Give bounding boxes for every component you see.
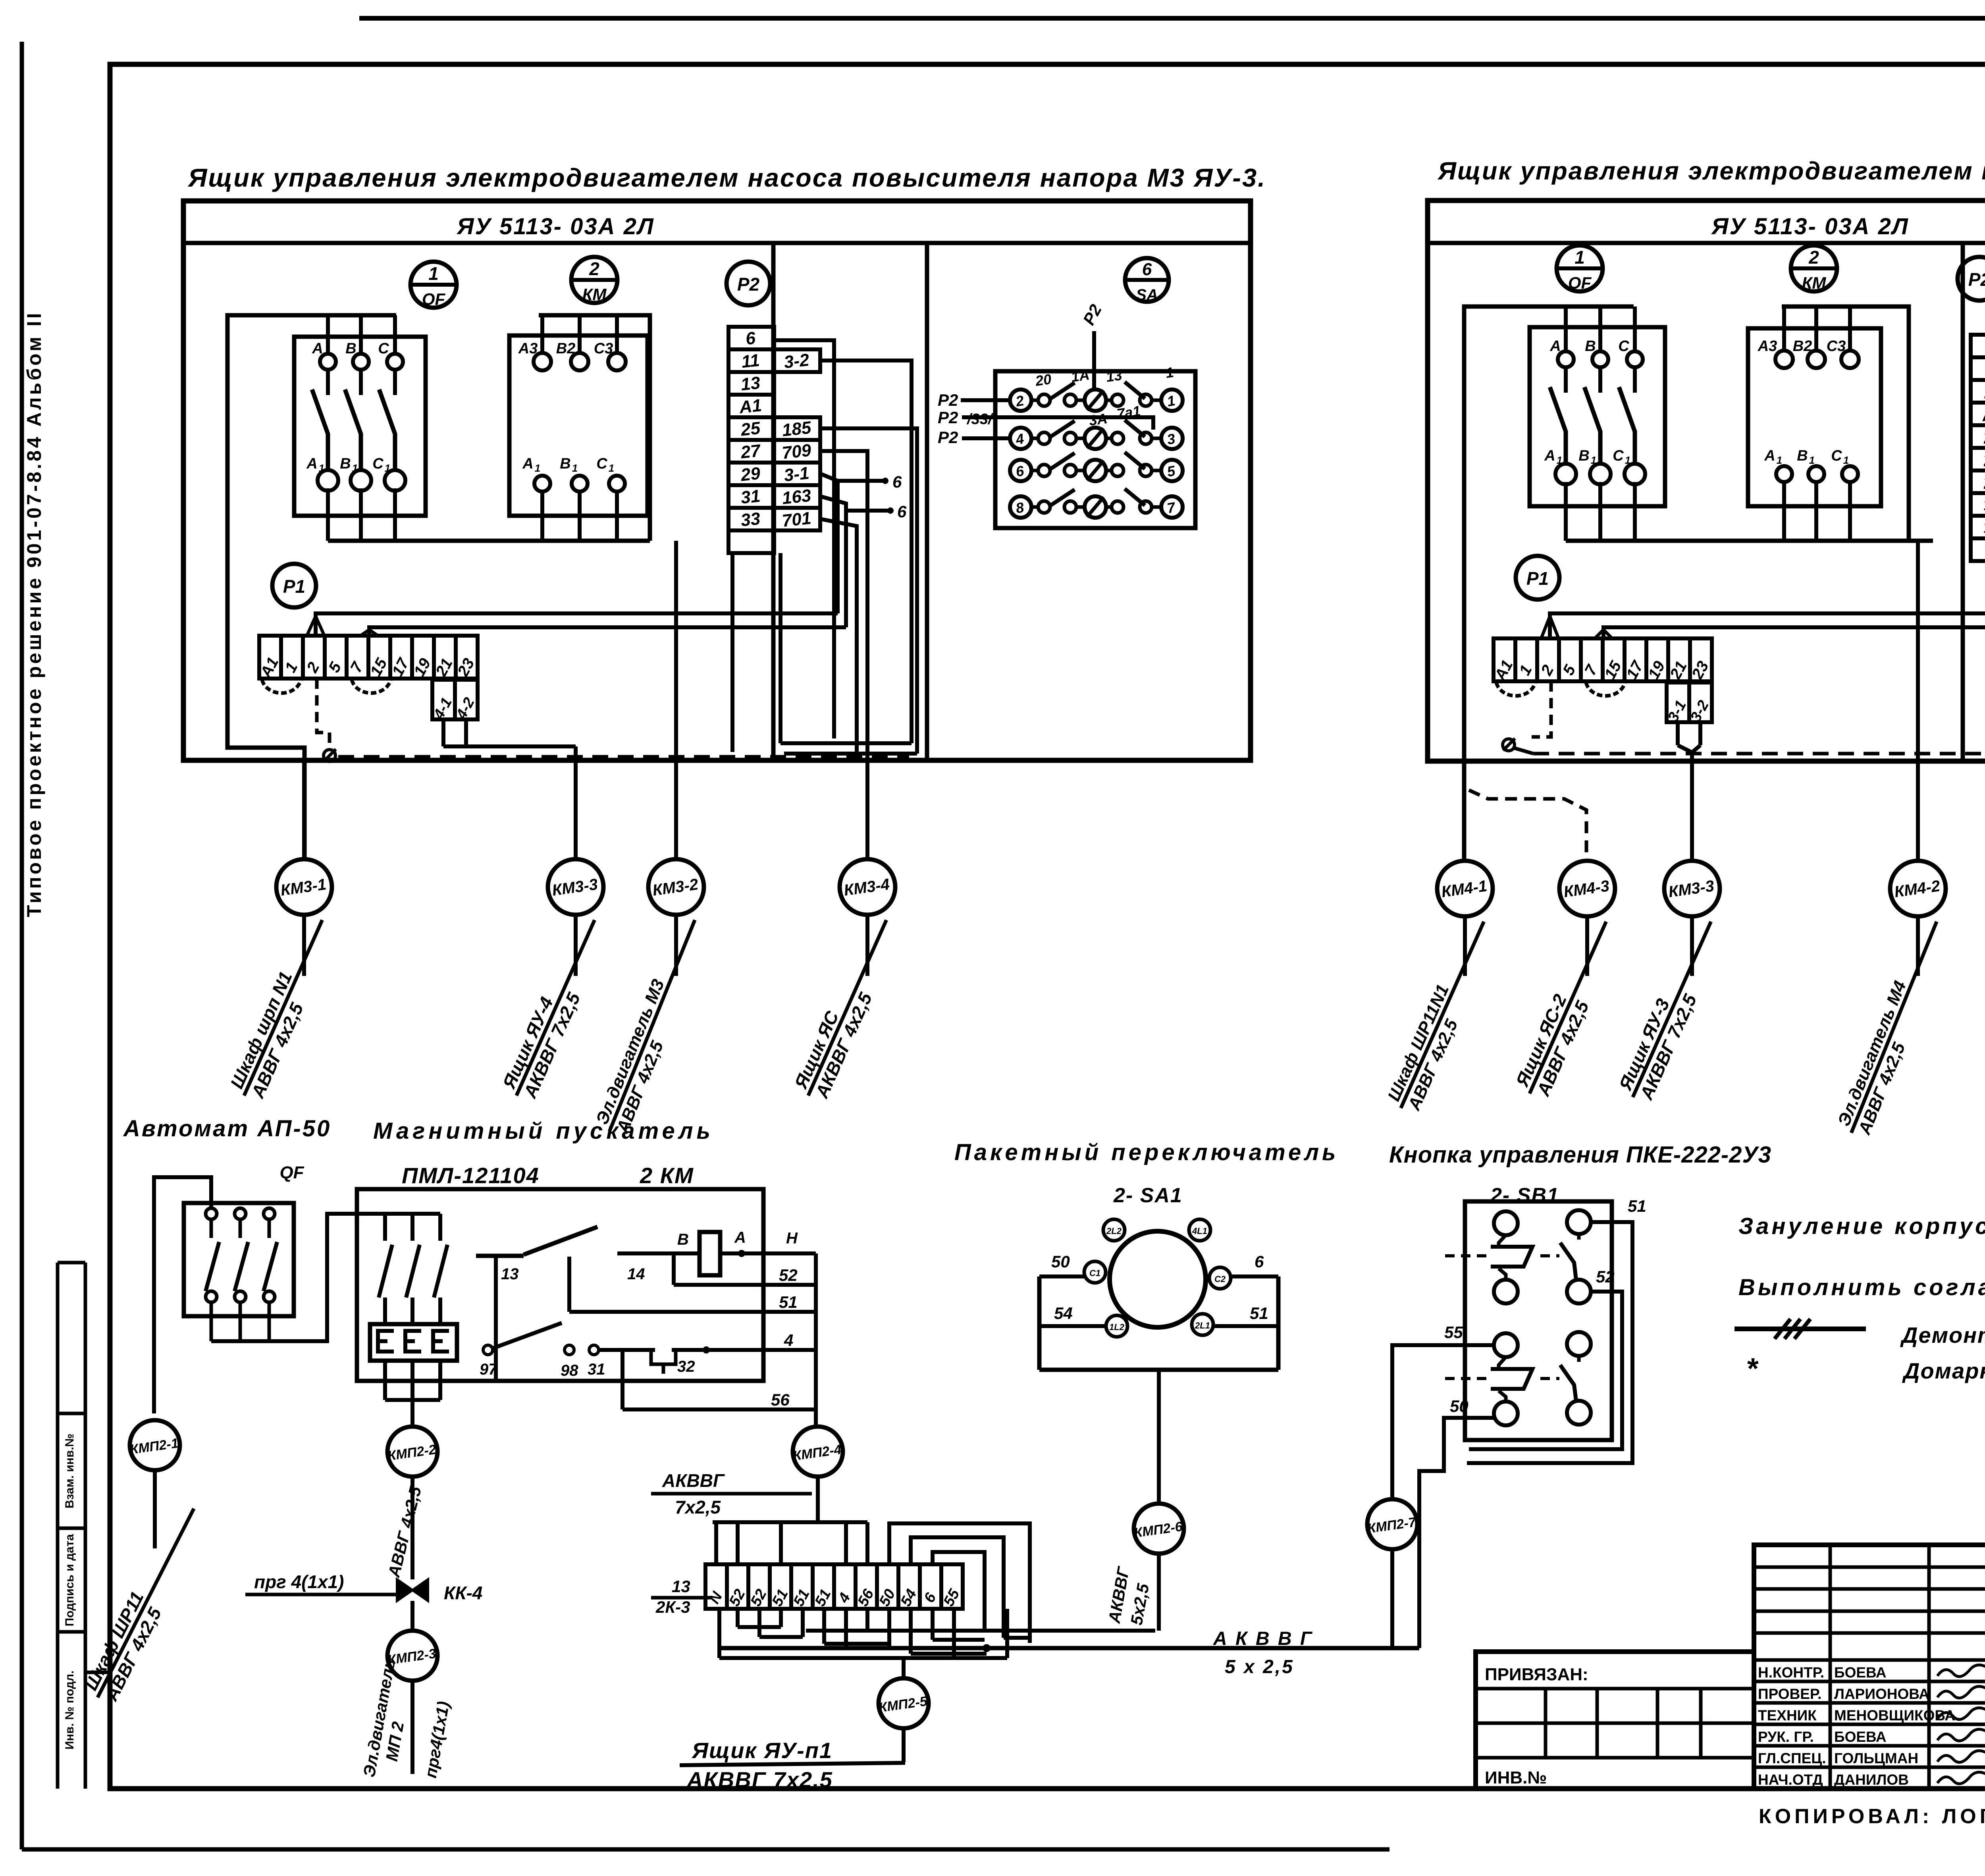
svg-text:1: 1 [1557, 454, 1562, 466]
wire loop to cell 54 [911, 1537, 1004, 1638]
wire P2 feed to SA top box1 [1092, 331, 1096, 390]
wire KM feeds box1 [539, 315, 650, 541]
wire KMP2-2 to KK-4 [410, 1477, 414, 1579]
cable label AKVVG 7x2.5 [651, 1470, 812, 1517]
svg-text:51: 51 [1250, 1304, 1268, 1323]
svg-text:С: С [372, 455, 384, 472]
wire funnel cell7 box2 [1595, 630, 1603, 638]
svg-text:54: 54 [1054, 1304, 1073, 1323]
svg-text:БОЕВА: БОЕВА [1834, 1729, 1887, 1745]
svg-text:1: 1 [609, 462, 614, 474]
svg-text:6: 6 [1255, 1252, 1264, 1271]
svg-text:А1: А1 [738, 395, 763, 417]
svg-text:2: 2 [589, 258, 599, 279]
cable label Шкаф ШР11N1 / АВВГ 4х2,5 [1382, 913, 1503, 1116]
wire 52 from SB1 [1469, 1292, 1622, 1449]
svg-text:РУК. ГР.: РУК. ГР. [1758, 1729, 1814, 1745]
wire stub below KM3-2 [674, 915, 678, 976]
wire bus to KMP2-6 [806, 1629, 1155, 1633]
wire from value 3-2 box1 [820, 361, 912, 743]
svg-text:1: 1 [1777, 454, 1782, 466]
svg-text:С: С [1618, 338, 1629, 355]
svg-text:1: 1 [572, 462, 578, 474]
svg-text:А3: А3 [1758, 338, 1777, 355]
svg-text:1: 1 [428, 263, 439, 284]
cable marker КМ4-2 [1890, 861, 1946, 916]
svg-text:Инв. № подл.: Инв. № подл. [63, 1670, 76, 1749]
svg-text:Н: Н [786, 1230, 798, 1247]
wire pair to P1 strip box1 upper [316, 613, 838, 636]
wire pair to P1 strip box2 lower [1603, 627, 1985, 638]
wire below KMP2-7 [1390, 1549, 1394, 1648]
svg-text:ГЛ.СПЕЦ.: ГЛ.СПЕЦ. [1758, 1750, 1826, 1766]
svg-text:С3: С3 [1827, 338, 1846, 355]
svg-text:709: 709 [781, 440, 812, 463]
svg-text:2: 2 [1808, 247, 1819, 268]
cable label Ящик ЯС-2 / АВВГ 4х2,5 [1510, 913, 1627, 1103]
svg-text:31: 31 [740, 486, 761, 508]
svg-text:33: 33 [740, 509, 761, 530]
cable label Шкаф ШР11 / АВВГ 4х2,5 [79, 1499, 214, 1708]
svg-text:С2: С2 [1214, 1274, 1226, 1284]
wire stub above KM3-1 [302, 760, 306, 859]
svg-text:В: В [1585, 338, 1596, 355]
svg-text:25: 25 [740, 418, 761, 440]
wire bottom bus box1 [328, 539, 650, 543]
svg-text:НАЧ.ОТД: НАЧ.ОТД [1758, 1772, 1823, 1788]
terminal cells 4-1 4-2 box1 [430, 680, 478, 722]
device circle 6/SA box1 [1125, 258, 1169, 304]
breaker AP-50 [184, 1203, 294, 1341]
svg-text:ДАНИЛОВ: ДАНИЛОВ [1834, 1772, 1909, 1788]
svg-text:55: 55 [1444, 1323, 1463, 1342]
wire P2 lead row3 box1 [962, 436, 1010, 440]
wire KK-4 to KMP2-3 [410, 1601, 414, 1631]
wire KM feeds box2 [1782, 307, 1909, 541]
svg-text:Р2: Р2 [1968, 269, 1985, 290]
divider P2 panel box2 [1961, 243, 1965, 761]
wire stub below KM3-3 [574, 915, 578, 976]
label Yashchik YaU-P1 [680, 1738, 905, 1792]
cable label Эл.двигатель М4 / АВВГ 4х2,5 [1833, 914, 1956, 1141]
device circle 2/KM box1 [571, 257, 617, 304]
svg-text:прг 4(1х1): прг 4(1х1) [254, 1571, 344, 1592]
wire from value 185 box1 [820, 428, 917, 754]
svg-text:Р2: Р2 [938, 408, 958, 427]
wire stub 6 lower box1 [846, 502, 907, 521]
svg-text:КК-4: КК-4 [444, 1583, 482, 1603]
svg-text:52: 52 [1596, 1267, 1615, 1286]
svg-text:Магнитный пускатель: Магнитный пускатель [373, 1118, 714, 1144]
wire AP-50 output bus [211, 1214, 440, 1341]
svg-text:Демонтировать: Демонтировать [1900, 1323, 1985, 1348]
svg-text:А: А [734, 1229, 746, 1246]
wire dashed from cell2 box1 [317, 679, 330, 750]
ground symbol box1 [324, 749, 336, 762]
sheet left edge [20, 42, 24, 1849]
wire strip to KMP2-5 [902, 1658, 906, 1678]
wire ladder bus to KMP2-4 [814, 1253, 818, 1427]
svg-text:Типовое проектное решение 90: Типовое проектное решение 901-07-8.84 Ал… [23, 310, 45, 917]
svg-text:Ящик ЯУ-п1: Ящик ЯУ-п1 [691, 1738, 833, 1763]
wire bottom bus box2 [1566, 539, 1933, 543]
svg-text:13: 13 [1105, 367, 1123, 385]
wire from value 701 box1 [820, 519, 857, 754]
wire N line [720, 1230, 816, 1257]
svg-text:5 х 2,5: 5 х 2,5 [1225, 1656, 1294, 1677]
wire P2 lead row2 box1 [962, 417, 1153, 430]
wire SA1 to KMP2-6 [1157, 1370, 1161, 1504]
svg-text:В2: В2 [556, 340, 576, 357]
device circle 1/QF box2 [1557, 245, 1603, 293]
svg-text:32: 32 [677, 1358, 695, 1375]
cable label Ящик ЯУ-4 / АКВВГ 7х2,5 [497, 911, 615, 1105]
svg-text:А: А [1549, 338, 1561, 355]
cable marker KMP2-1 [129, 1420, 180, 1470]
wire understrip weave [719, 1609, 1030, 1658]
contactor KM box2 [1748, 328, 1881, 541]
svg-text:1: 1 [1575, 247, 1585, 268]
svg-text:Выполнить согласно ПУЭ: Выполнить согласно ПУЭ [1738, 1274, 1985, 1300]
wire cable drop KM3-2 [674, 541, 678, 859]
svg-text:С: С [596, 455, 607, 472]
wire stub below KM3-3 right [1690, 916, 1694, 976]
svg-text:Взам. инв.№: Взам. инв.№ [63, 1434, 76, 1509]
svg-text:А: А [306, 455, 317, 472]
svg-text:Ящик управления электродвигате: Ящик управления электродвигателем насоса… [1437, 157, 1985, 185]
svg-text:ЯУ 5113- 03А 2Л: ЯУ 5113- 03А 2Л [1711, 214, 1909, 239]
svg-text:Ящик управления электродвигате: Ящик управления электродвигателем насоса… [187, 163, 1266, 192]
cable label AKVVG 5x2.5 vertical [1104, 1565, 1152, 1627]
svg-text:2К-3: 2К-3 [655, 1598, 690, 1616]
wire from value 709 box1 to KM3-4 [820, 451, 867, 859]
svg-text:1: 1 [1625, 454, 1630, 466]
wire cable drop KM3-3 right [1690, 752, 1694, 859]
svg-text:1: 1 [1843, 454, 1849, 466]
wire dashed from cell2 box2 [1532, 681, 1551, 737]
wire below KMP2-1 [153, 1470, 157, 1548]
svg-text:ЯУ 5113- 03А 2Л: ЯУ 5113- 03А 2Л [456, 214, 654, 239]
thermal fuse KK-4 [397, 1579, 428, 1601]
wire cable drop KM4-2 [1916, 541, 1920, 859]
wire pair to P1 strip box2 upper [1550, 613, 1985, 638]
wire long bus to KMP2-7 [719, 1646, 1419, 1650]
wire sheet top edge [359, 16, 1985, 21]
svg-text:ГОЛЬЦМАН: ГОЛЬЦМАН [1834, 1750, 1918, 1766]
svg-text:КОПИРОВАЛ: ЛОГИНОВА: КОПИРОВАЛ: ЛОГИНОВА [1759, 1805, 1985, 1828]
svg-text:В: В [340, 455, 351, 472]
stamp signature table [1754, 1545, 1985, 1789]
svg-text:ПМЛ-121104: ПМЛ-121104 [402, 1163, 540, 1188]
svg-text:КМ: КМ [1802, 274, 1827, 292]
svg-text:ИНВ.№: ИНВ.№ [1485, 1768, 1547, 1787]
svg-text:А К В В Г: А К В В Г [1213, 1628, 1313, 1649]
ground symbol box2 [1503, 738, 1515, 751]
contactor 2KM poles [379, 1214, 447, 1324]
wire loop to cell 6 [933, 1552, 985, 1633]
current transformer arc right box2 [1586, 683, 1625, 696]
svg-text:В: В [560, 455, 570, 472]
cable label AKVVG 5x2.5 horizontal [1213, 1628, 1313, 1677]
wire ground tail box2 [1514, 748, 1533, 754]
svg-text:Н.КОНТР.: Н.КОНТР. [1758, 1664, 1824, 1681]
wire KMP2-4 to strip bus [816, 1477, 820, 1522]
cable label Шкаф шрп N1 / АВВГ 4х2,5 [225, 911, 343, 1105]
device circle P2 box2 [1958, 257, 1985, 301]
cable marker КМ3-4 [840, 859, 895, 915]
svg-text:1: 1 [352, 462, 358, 474]
svg-text:Р1: Р1 [1526, 568, 1549, 589]
terminal block P1 box2 [1491, 638, 1712, 684]
wire P2 lead row1 box1 [961, 398, 1010, 402]
svg-text:В: В [1797, 447, 1808, 464]
wire dashed cable KM4-3 [1469, 790, 1586, 859]
aux contact 13-14 [476, 1227, 700, 1381]
wire pair to P1 strip box1 lower [369, 627, 846, 636]
legend demontage symbol [1734, 1319, 1866, 1339]
wire cable drop KM3-3 [574, 746, 578, 859]
svg-text:51: 51 [1628, 1197, 1646, 1215]
svg-text:Автомат АП-50: Автомат АП-50 [123, 1116, 331, 1141]
svg-text:С: С [1831, 447, 1842, 464]
current transformer arc right box1 [352, 680, 391, 693]
device circle P2 box1 [727, 262, 770, 305]
svg-text:QF: QF [1568, 274, 1592, 293]
device circle 1/QF box1 [410, 262, 457, 309]
wire inner panel left box2 / cable drop KM4-1 [1464, 307, 1634, 859]
terminal values P2 box1 [774, 349, 820, 531]
svg-text:1: 1 [385, 462, 390, 474]
svg-text:ТЕХНИК: ТЕХНИК [1758, 1707, 1817, 1724]
svg-text:4L1: 4L1 [1192, 1226, 1207, 1236]
device circle P1 box1 [272, 564, 316, 607]
wire stub 6 upper box1 [838, 472, 902, 491]
wire 4 line with contacts [480, 1323, 816, 1379]
svg-text:QF: QF [279, 1163, 304, 1182]
wire QF phase feeds box2 [1564, 307, 1568, 351]
label 13 / 2K-3 [651, 1577, 711, 1616]
current transformer arc left box1 [262, 680, 301, 693]
cable marker КМ3-3 [1664, 861, 1720, 916]
wire funnel cell2 box2 [1541, 616, 1550, 638]
box YaU-4 outline [1428, 201, 1985, 761]
svg-text:SA: SA [1136, 286, 1158, 304]
svg-text:6: 6 [892, 472, 902, 491]
wire stub below KM4-3 [1585, 916, 1589, 976]
svg-text:98: 98 [561, 1362, 578, 1379]
wire stub below KM3-1 [302, 915, 306, 976]
svg-text:БОЕВА: БОЕВА [1834, 1664, 1887, 1681]
svg-text:А: А [522, 455, 533, 472]
wire 52 line [674, 1253, 816, 1285]
svg-text:/33/: /33/ [966, 411, 994, 428]
svg-text:52: 52 [779, 1266, 798, 1284]
svg-text:АКВВГ 7х2,5: АКВВГ 7х2,5 [686, 1767, 833, 1792]
svg-text:ПРОВЕР.: ПРОВЕР. [1758, 1686, 1821, 1702]
current transformer arc left box2 [1496, 683, 1535, 696]
wire risers to strip cells [716, 1522, 867, 1564]
svg-text:Зануление корпусов приборов: Зануление корпусов приборов и оборудован… [1738, 1213, 1985, 1239]
wire funnel cell7 box1 [360, 630, 369, 636]
svg-text:МЕНОВЩИКОВА: МЕНОВЩИКОВА [1834, 1707, 1955, 1724]
cable label El.dvigatel MP2 [360, 1657, 453, 1779]
svg-text:Р2: Р2 [737, 274, 760, 295]
contactor 2KM outline [357, 1189, 763, 1381]
svg-text:701: 701 [781, 508, 812, 530]
svg-text:Р2: Р2 [938, 391, 958, 409]
svg-text:6: 6 [897, 502, 907, 521]
svg-text:Р1: Р1 [283, 576, 305, 597]
cable marker КМ4-1 [1437, 861, 1493, 916]
cable label Эл.двигатель М3 / АВВГ 4х2,5 [591, 912, 715, 1139]
svg-text:3-2: 3-2 [783, 350, 810, 372]
svg-text:А: А [1544, 447, 1555, 464]
wire bottom collector bus box1 [784, 752, 917, 756]
cable marker KMP2-4 [792, 1427, 843, 1477]
svg-text:КМ: КМ [582, 285, 607, 304]
wire cells 3-1 3-2 merge box2 [1676, 722, 1680, 745]
terminal block P1 box1 [257, 636, 478, 681]
svg-text:31: 31 [588, 1361, 605, 1378]
svg-text:А: А [1764, 447, 1775, 464]
svg-text:27: 27 [740, 441, 762, 462]
wire strip tail box1 [779, 553, 782, 743]
push button 2-SB1 body [1465, 1201, 1612, 1440]
cable label Ящик ЯУ-3 / АКВВГ 7х2,5 [1613, 913, 1731, 1106]
terminal block P2 box1 [728, 327, 774, 553]
label prg 4(1x1) [245, 1571, 397, 1595]
svg-text:ПРИВЯЗАН:: ПРИВЯЗАН: [1485, 1665, 1588, 1684]
svg-text:14: 14 [627, 1265, 645, 1283]
wire 56 line [622, 1350, 816, 1409]
wire KMP2-1 riser [154, 1177, 211, 1413]
svg-text:ЛАРИОНОВА: ЛАРИОНОВА [1834, 1686, 1929, 1702]
svg-text:Подпись и дата: Подпись и дата [63, 1534, 76, 1626]
svg-text:С: С [378, 340, 389, 357]
wire below KMP2-3 [410, 1681, 414, 1774]
svg-text:2L1: 2L1 [1195, 1321, 1210, 1330]
wire KMP2-7 riser to 55 [1392, 1345, 1465, 1499]
box YaU-3 outline [183, 201, 1251, 760]
svg-text:50: 50 [1051, 1252, 1070, 1271]
svg-text:7х2,5: 7х2,5 [675, 1497, 721, 1517]
svg-text:QF: QF [422, 290, 446, 309]
svg-text:56: 56 [771, 1390, 790, 1409]
svg-text:Домаркировать: Домаркировать [1902, 1358, 1985, 1383]
svg-text:С: С [1613, 447, 1624, 464]
svg-text:2L2: 2L2 [1106, 1226, 1122, 1236]
wire stub below KM3-4 [865, 915, 869, 976]
device circle P1 box2 [1516, 556, 1559, 600]
wire stub below KM4-1 [1463, 916, 1467, 976]
svg-text:163: 163 [781, 486, 812, 508]
coil KM relay [677, 1229, 746, 1275]
svg-text:2- SA1: 2- SA1 [1113, 1184, 1183, 1207]
wire below KMP2-5 [902, 1728, 906, 1762]
svg-text:В: В [345, 340, 356, 357]
contactor KM box1 [509, 335, 648, 541]
button unit lower [1445, 1332, 1591, 1425]
divider P2 panel box1 [771, 243, 776, 760]
svg-text:В: В [1578, 447, 1589, 464]
wire QF outputs to bus box1 [326, 488, 330, 541]
svg-text:50: 50 [1450, 1397, 1469, 1415]
cable marker KMP2-7 [1366, 1499, 1418, 1549]
svg-text:АКВВГ: АКВВГ [662, 1470, 725, 1491]
svg-text:1: 1 [1591, 454, 1596, 466]
terminal block P2 box2 [1971, 335, 1985, 561]
wire drop to KMP2-2 [410, 1400, 414, 1427]
terminal cells 3-1 3-2 box2 [1665, 683, 1712, 725]
wire 2KM outputs [385, 1361, 440, 1400]
wire 50 from SB1 [1419, 1418, 1494, 1648]
svg-text:1А: 1А [1070, 366, 1090, 385]
box YaU-4 header divider [1428, 241, 1985, 245]
svg-text:С3: С3 [594, 340, 613, 357]
svg-text:Кнопка управления ПКЕ-222-2У3: Кнопка управления ПКЕ-222-2У3 [1389, 1142, 1771, 1168]
svg-text:1: 1 [319, 462, 324, 474]
cable marker КМ3-2 [648, 859, 704, 915]
svg-text:С1: С1 [1089, 1268, 1100, 1278]
svg-text:3А: 3А [1088, 410, 1108, 429]
svg-text:13: 13 [672, 1577, 690, 1596]
wire inner panel left box1 [227, 315, 396, 859]
svg-text:*: * [1746, 1352, 1759, 1385]
wire funnel cell2 box1 [307, 616, 316, 636]
device circle 2/KM box2 [1791, 245, 1837, 292]
svg-text:13: 13 [501, 1265, 519, 1283]
wire cells 4-1 4-2 to bus box1 [441, 719, 445, 746]
svg-text:2 КМ: 2 КМ [640, 1163, 694, 1188]
svg-text:1: 1 [535, 462, 540, 474]
wire below KMP2-6 [1157, 1554, 1161, 1631]
svg-text:1: 1 [1809, 454, 1815, 466]
cable marker KMP2-6 [1133, 1504, 1184, 1554]
svg-text:13: 13 [740, 373, 761, 395]
packet switch 2-SA1 [1039, 1219, 1278, 1370]
divider SA panel box1 [925, 243, 929, 760]
sheet bottom edge [22, 1847, 1389, 1852]
cable marker КМ4-3 [1559, 861, 1615, 916]
svg-text:4: 4 [784, 1331, 793, 1350]
wire from value 163 box1 [820, 496, 846, 627]
svg-text:185: 185 [781, 418, 812, 440]
cable marker КМ3-1 [276, 859, 332, 915]
wire QF outputs to bus box2 [1564, 482, 1568, 541]
svg-text:11: 11 [740, 351, 761, 372]
wire stub below KM4-2 [1916, 916, 1920, 976]
wire dashed earth bus box1 [338, 755, 909, 759]
wire 55 into SB1 [1465, 1343, 1494, 1347]
breaker QF box2 [1530, 327, 1665, 506]
stamp attachment table [1476, 1652, 1754, 1789]
svg-text:97: 97 [480, 1361, 498, 1378]
svg-text:Пакетный переключатель: Пакетный переключатель [954, 1139, 1339, 1165]
cable marker KMP2-5 [878, 1678, 929, 1728]
cable label Ящик ЯС / АКВВГ 4х2,5 [789, 911, 907, 1105]
thermal overload element KK [370, 1324, 457, 1361]
svg-text:29: 29 [740, 464, 761, 485]
cable marker KMP2-2 [387, 1427, 437, 1477]
svg-text:В: В [677, 1231, 689, 1248]
svg-text:6: 6 [1142, 260, 1152, 279]
cable marker КМ3-3 [548, 859, 603, 915]
left margin stamp column [58, 1263, 110, 1789]
wire P2 row6 out box1 [774, 340, 834, 738]
wire loop to cell 50 [889, 1523, 1030, 1643]
svg-text:3-1: 3-1 [783, 463, 810, 485]
svg-text:В2: В2 [1793, 338, 1812, 355]
